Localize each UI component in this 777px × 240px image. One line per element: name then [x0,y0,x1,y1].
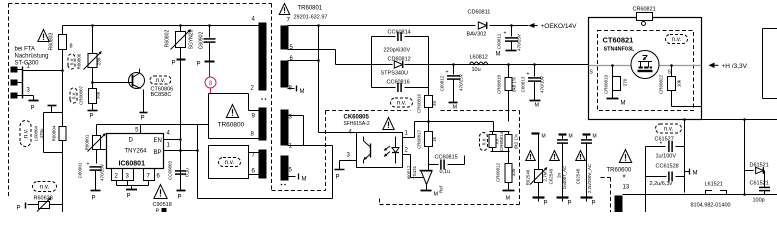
svg-text:230: 230 [97,57,102,65]
svg-text:I60517: I60517 [407,165,412,179]
svg-text:R62540: R62540 [526,169,531,185]
svg-text:EN: EN [154,138,162,144]
svg-text:56k: 56k [96,91,101,99]
svg-text:R60801: R60801 [85,134,90,150]
svg-text:P: P [172,61,176,67]
svg-text:100p: 100p [753,198,765,204]
svg-text:270: 270 [623,78,628,86]
svg-text:M: M [569,134,573,140]
svg-text:R60806: R60806 [77,53,82,69]
svg-text:n.v.: n.v. [156,78,166,84]
svg-text:C90518: C90518 [153,202,172,208]
svg-text:CC61528: CC61528 [656,164,679,170]
svg-text:M: M [496,52,501,58]
svg-text:CR60812: CR60812 [496,162,501,182]
svg-text:CR60816: CR60816 [417,93,422,113]
svg-text:C60812: C60812 [440,75,445,91]
svg-text:R60804: R60804 [52,125,57,141]
svg-text:M: M [593,134,597,140]
svg-text:TR60800: TR60800 [218,122,245,129]
svg-text:P: P [17,206,21,212]
svg-text:TNY264: TNY264 [125,149,148,155]
svg-text:CR60817: CR60817 [417,129,422,149]
svg-text:P: P [336,175,340,181]
svg-text:1n4007_AC: 1n4007_AC [562,165,567,190]
svg-text:BAV302: BAV302 [467,32,487,38]
svg-text:P: P [127,194,131,200]
svg-text:10k: 10k [677,79,682,87]
svg-text:+H /3,3V: +H /3,3V [722,63,748,70]
svg-text:D: D [129,138,134,144]
svg-text:0,1u: 0,1u [440,169,451,175]
svg-text:+: + [87,162,90,168]
svg-text:CR60821: CR60821 [633,7,656,13]
svg-text:2n: 2n [557,173,562,179]
svg-text:1u/100V: 1u/100V [656,154,677,160]
svg-text:P: P [197,62,201,68]
svg-text:M: M [693,171,698,177]
svg-text:IC60801: IC60801 [119,161,146,168]
svg-text:P: P [92,196,96,202]
svg-text:R60802: R60802 [165,30,171,48]
svg-text:TR60801: TR60801 [298,6,323,12]
svg-text:n.v.: n.v. [672,37,682,43]
svg-text:C60811: C60811 [497,33,502,49]
svg-text:CD60812: CD60812 [388,57,411,63]
svg-text:BC858C: BC858C [151,92,172,98]
svg-text:CC60815: CC60815 [435,155,458,161]
svg-text:470u: 470u [39,128,44,139]
svg-text:8: 8 [70,44,73,50]
svg-text:L60812: L60812 [470,55,488,61]
svg-text:39: 39 [432,101,437,107]
svg-text:P: P [90,114,94,120]
svg-text:+: + [504,31,507,37]
svg-text:CR60818: CR60818 [497,74,502,94]
svg-text:BP: BP [154,150,162,156]
svg-text:CC60814: CC60814 [388,30,411,36]
svg-text:470/25V: 470/25V [517,34,522,51]
svg-text:STN4NF03L: STN4NF03L [604,47,636,53]
svg-text:SFH615A-2: SFH615A-2 [344,121,370,127]
svg-text:M: M [542,134,546,140]
svg-text:P: P [544,201,548,207]
svg-text:CR60807: CR60807 [79,85,84,105]
svg-text:330: 330 [511,168,516,176]
svg-text:C62549: C62549 [549,168,554,184]
svg-text:L61521: L61521 [705,182,723,188]
svg-text:13: 13 [623,185,630,191]
svg-text:CR60814: CR60814 [499,131,504,151]
svg-text:M: M [535,103,540,109]
svg-text:STPS340U: STPS340U [381,71,409,77]
svg-text:470/10V: 470/10V [540,76,545,93]
svg-text:M: M [621,101,626,107]
svg-text:6k2 1%: 6k2 1% [514,134,519,149]
svg-text:CT60821: CT60821 [603,36,634,45]
svg-text:n.v.: n.v. [40,185,50,191]
svg-text:n.v.: n.v. [397,101,407,107]
svg-text:470/25V: 470/25V [459,74,464,91]
svg-text:*: * [623,174,626,183]
svg-text:Ref: Ref [439,185,444,193]
svg-text:6k8 1%: 6k8 1% [512,77,517,92]
svg-text:M: M [506,196,511,202]
svg-text:n.v.: n.v. [72,92,78,100]
svg-text:P: P [178,195,182,201]
svg-text:10u: 10u [472,67,481,73]
svg-text:1k: 1k [432,136,437,142]
svg-text:D61521: D61521 [750,163,769,169]
svg-text:M: M [302,177,307,183]
svg-text:TR60600: TR60600 [607,168,632,174]
svg-text:P: P [592,201,596,207]
svg-text:CR60819: CR60819 [604,74,609,94]
svg-text:+: + [660,141,663,147]
svg-text:bei FTA: bei FTA [15,47,36,53]
svg-text:CC60803: CC60803 [168,160,173,180]
svg-text:P: P [141,116,145,122]
svg-text:C61527: C61527 [655,137,674,143]
svg-text:M: M [300,89,305,95]
svg-text:29201-632.97: 29201-632.97 [294,15,328,21]
svg-text:C61521: C61521 [750,181,769,187]
svg-text:+: + [527,72,530,78]
svg-text:470/25V: 470/25V [100,164,105,181]
svg-text:C60901: C60901 [78,162,83,178]
svg-text:L60804: L60804 [34,126,39,142]
svg-text:C60813: C60813 [521,76,526,92]
svg-text:2,7M: 2,7M [543,171,548,181]
svg-text:P: P [31,106,35,112]
svg-text:n.v.: n.v. [24,129,30,139]
svg-text:CR60822: CR60822 [659,74,664,94]
svg-text:TS431: TS431 [412,165,417,179]
svg-text:SGYN26: SGYN26 [189,29,195,49]
svg-text:CD60811: CD60811 [468,10,491,16]
svg-text:n.v.: n.v. [482,138,488,146]
svg-text:2,2u/6,3v: 2,2u/6,3v [650,181,673,187]
svg-text:0,1u: 0,1u [185,168,190,177]
svg-text:C60902: C60902 [199,32,205,50]
svg-text:8104.982-01400: 8104.982-01400 [691,203,731,209]
svg-text:Nachrüstung: Nachrüstung [15,54,49,60]
svg-text:P: P [568,201,572,207]
svg-text:C62548: C62548 [576,168,581,184]
svg-text:n.v.: n.v. [664,127,674,133]
svg-text:M: M [453,105,458,111]
svg-text:n.v.: n.v. [225,160,235,166]
svg-text:P: P [156,209,160,213]
svg-text:CK60805: CK60805 [344,115,370,121]
svg-text:+: + [446,70,449,76]
svg-text:n.v.: n.v. [70,58,76,66]
svg-text:220p/630V: 220p/630V [384,48,411,54]
svg-text:+OEKO/14V: +OEKO/14V [541,23,578,30]
svg-text:2,2n/250V_AC: 2,2n/250V_AC [587,163,592,193]
svg-text:R60803: R60803 [49,33,55,51]
